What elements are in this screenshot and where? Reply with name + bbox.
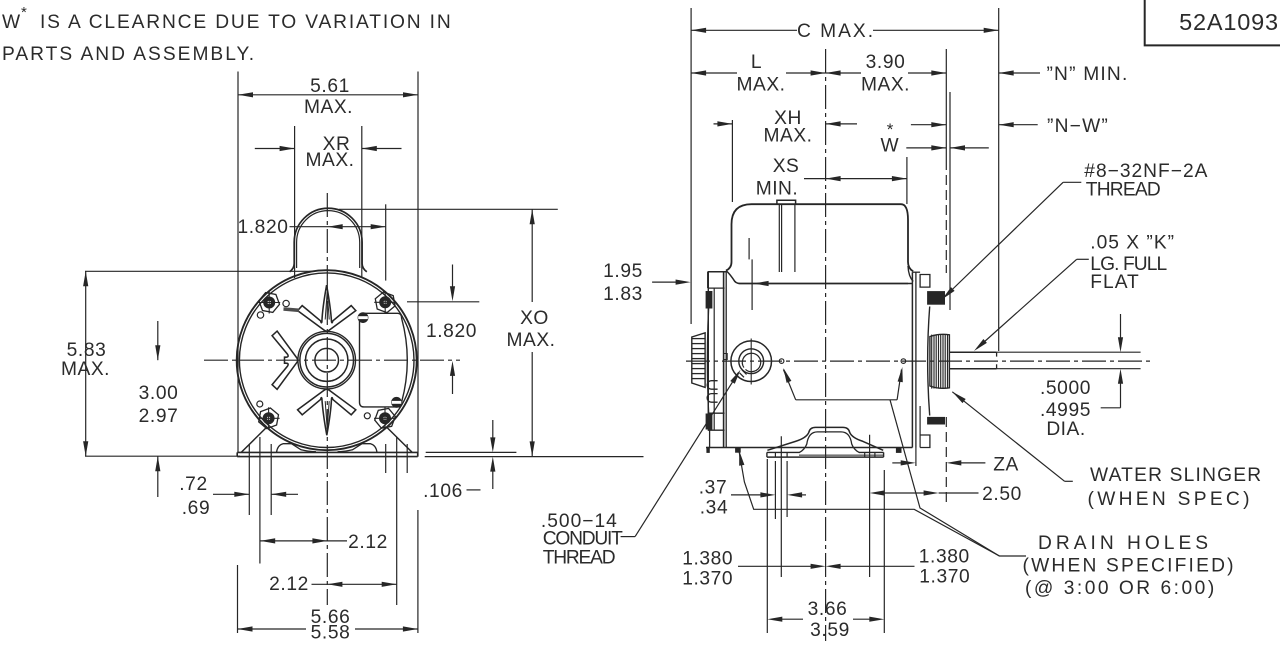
svg-text:1.380: 1.380 <box>682 549 733 570</box>
svg-text:3.90: 3.90 <box>866 52 906 73</box>
mid foot pad <box>735 448 741 453</box>
small hole near UL boss <box>283 300 289 306</box>
left foot inner profile <box>277 444 317 453</box>
base clamp bar <box>767 451 800 453</box>
svg-text:5.58: 5.58 <box>311 623 351 644</box>
dim 1.820 right (bolt line to centerline) <box>407 301 479 303</box>
cap right flare <box>908 266 913 282</box>
vertical ref line at shaft shoulder <box>945 49 947 160</box>
dim XS MIN <box>906 157 908 204</box>
svg-text:.4995: .4995 <box>1040 400 1091 421</box>
svg-text:MIN.: MIN. <box>756 179 799 200</box>
svg-text:FLAT: FLAT <box>1090 272 1140 293</box>
left bearing hub ribbed <box>692 333 705 388</box>
dim 2.12 upper <box>260 540 347 542</box>
svg-text:THREAD: THREAD <box>1086 180 1160 201</box>
svg-text:1.95: 1.95 <box>603 261 643 282</box>
svg-text:2.97: 2.97 <box>139 406 179 427</box>
centerline horizontal right view <box>686 360 1151 362</box>
right foot outer slant <box>387 427 413 452</box>
svg-text:PARTS AND ASSEMBLY.: PARTS AND ASSEMBLY. <box>2 44 256 65</box>
vertical centerline left view <box>326 193 328 605</box>
base reference lines right extension <box>426 451 517 453</box>
svg-text:W: W <box>2 12 21 33</box>
dim 5.61 MAX extension lines <box>237 72 239 453</box>
svg-text:3.59: 3.59 <box>810 620 850 641</box>
centerline vertical right view <box>825 49 827 641</box>
svg-text:3.00: 3.00 <box>139 383 179 404</box>
vertical ref line shaft face <box>949 92 951 310</box>
svg-text:C MAX.: C MAX. <box>797 21 875 42</box>
svg-text:2.12: 2.12 <box>348 532 388 553</box>
dim 5.66 / 5.58 <box>237 565 239 633</box>
foot slot lines left <box>248 444 250 515</box>
svg-text:3.66: 3.66 <box>808 599 848 620</box>
drain hole right dot <box>901 359 906 364</box>
svg-text:5.83: 5.83 <box>67 340 107 361</box>
motor body circle inner ring <box>239 273 414 448</box>
drain leader right dot <box>897 370 901 400</box>
dim 3.00 / 2.97 <box>157 321 159 360</box>
svg-text:MAX.: MAX. <box>304 97 353 118</box>
svg-text:DIA.: DIA. <box>1046 419 1085 440</box>
drain leader to text <box>890 400 1026 556</box>
svg-text:MAX.: MAX. <box>861 75 910 96</box>
svg-text:MAX.: MAX. <box>306 150 355 171</box>
svg-text:.5000: .5000 <box>1040 378 1091 399</box>
right clip top dark <box>927 291 945 305</box>
vent group bottom with needle <box>298 389 356 435</box>
name plate screw bottom <box>392 398 402 408</box>
left plate foot pad <box>706 447 709 453</box>
conduit boss notch <box>742 370 747 375</box>
dim 3.66 / 3.59 <box>766 459 768 633</box>
center shaft circles <box>315 348 339 372</box>
dim 3.90 MAX <box>826 72 861 74</box>
bolt lower-right with boss <box>380 413 391 424</box>
right clip bottom dark <box>927 417 945 425</box>
dim XH MAX <box>731 120 733 202</box>
foot slot center line right <box>396 437 398 605</box>
dim XR MAX extension lines <box>294 126 296 278</box>
clamp slot ticks <box>774 452 776 457</box>
svg-text:1.380: 1.380 <box>919 547 970 568</box>
svg-text:DRAIN HOLES: DRAIN HOLES <box>1038 533 1212 554</box>
ZA extension from body edge <box>915 448 917 467</box>
conduit boss centerline tick <box>750 339 752 385</box>
needle inner line top <box>325 292 329 320</box>
svg-text:(WHEN SPECIFIED): (WHEN SPECIFIED) <box>1023 556 1236 577</box>
bottom base reference line left <box>85 455 240 457</box>
body top arrow <box>754 281 769 286</box>
name plate <box>360 313 408 407</box>
svg-text:.37: .37 <box>699 478 727 499</box>
needle inner line bottom <box>325 401 329 429</box>
conduit boss on body <box>731 341 772 382</box>
left clip bottom dark <box>706 414 713 430</box>
cap top tab <box>777 200 796 204</box>
conduit hump on top of motor <box>290 208 367 272</box>
svg-text:52A1093: 52A1093 <box>1179 9 1279 35</box>
svg-text:IS A CLEARNCE DUE TO VARI: IS A CLEARNCE DUE TO VARIATION IN <box>40 12 453 33</box>
dim 1.380/1.370 left <box>780 436 782 577</box>
conduit cap side view <box>726 204 913 271</box>
right foot pad <box>896 448 902 453</box>
foot slot center line left <box>259 437 261 564</box>
svg-text:XO: XO <box>520 308 549 329</box>
left end plate <box>708 271 727 273</box>
vent group top with needle <box>298 285 356 331</box>
right foot inner profile <box>338 444 378 453</box>
clamp hump outer <box>767 427 883 450</box>
title block 52A1093 <box>1145 0 1280 45</box>
drain leader from foot pad <box>739 452 999 556</box>
svg-text:1.820: 1.820 <box>426 321 477 342</box>
top tangent reference line <box>85 270 314 272</box>
bolt lower-left with boss <box>263 413 274 424</box>
vent ring circle <box>298 331 356 389</box>
mounting base left view <box>237 451 418 453</box>
right end bell curve <box>928 307 930 416</box>
dim C MAX <box>690 8 692 324</box>
svg-text:ZA: ZA <box>993 455 1019 476</box>
horizontal centerline left view <box>204 359 460 361</box>
small hole near LL boss <box>257 401 263 407</box>
svg-text:.106: .106 <box>423 481 463 502</box>
svg-text:W: W <box>880 136 899 157</box>
left plate lower lines <box>709 430 711 447</box>
motor body side outline <box>726 271 908 284</box>
conduit hump inner wall <box>297 211 360 268</box>
svg-text:MAX.: MAX. <box>764 126 813 147</box>
svg-text:CONDUIT: CONDUIT <box>543 529 623 550</box>
drain hole left dot <box>779 359 784 364</box>
vent group left <box>272 331 298 389</box>
right end step rect bottom <box>920 435 930 448</box>
dim L MAX <box>691 72 737 74</box>
vent slot bar near UL boss <box>284 309 300 310</box>
left clip top dark <box>706 291 713 309</box>
svg-text:(@ 3:00 OR 6:00): (@ 3:00 OR 6:00) <box>1025 578 1217 599</box>
drain leader left dot <box>783 370 795 400</box>
bolt upper-right with boss <box>380 297 391 308</box>
bolt upper-left with boss <box>264 297 275 308</box>
svg-text:XS: XS <box>773 156 800 177</box>
svg-text:1.83: 1.83 <box>603 284 643 305</box>
water slinger ribbed disc <box>930 334 950 388</box>
dim XR MAX <box>255 148 295 150</box>
svg-text:(WHEN SPEC): (WHEN SPEC) <box>1088 489 1253 510</box>
dim 1.820 top <box>385 204 387 280</box>
left end bell curve <box>707 292 709 431</box>
svg-text:MAX.: MAX. <box>737 75 786 96</box>
svg-text:MAX.: MAX. <box>507 330 556 351</box>
svg-text:.69: .69 <box>182 498 210 519</box>
svg-text:2.50: 2.50 <box>982 484 1022 505</box>
right body edge lines <box>911 272 913 447</box>
motor body circle outer <box>237 270 417 450</box>
shaft <box>949 351 996 353</box>
name plate screw top <box>358 313 368 323</box>
dim 5.61 MAX <box>238 94 418 96</box>
right end step rect top <box>920 275 930 288</box>
svg-text:”N” MIN.: ”N” MIN. <box>1046 64 1128 85</box>
svg-text:.72: .72 <box>179 474 207 495</box>
dim .106 <box>492 420 494 440</box>
svg-text:”N−W”: ”N−W” <box>1047 116 1109 137</box>
svg-text:THREAD: THREAD <box>543 548 615 569</box>
dim 5.83 MAX <box>85 271 87 456</box>
svg-text:1.370: 1.370 <box>919 567 970 588</box>
left clip top rect <box>708 287 725 289</box>
hump top reference line <box>339 208 558 210</box>
base mounting line <box>799 454 883 456</box>
svg-text:1.820: 1.820 <box>237 217 288 238</box>
svg-text:2.12: 2.12 <box>269 574 309 595</box>
svg-text:L: L <box>751 52 762 73</box>
svg-text:.05 X ”K”: .05 X ”K” <box>1090 233 1175 254</box>
svg-text:WATER SLINGER: WATER SLINGER <box>1090 465 1262 486</box>
svg-text:MAX.: MAX. <box>61 359 110 380</box>
cap seam lines <box>778 204 780 272</box>
small hole near LR boss <box>364 413 370 419</box>
clamp hump inner <box>799 432 860 453</box>
foot slot lines right <box>385 444 387 473</box>
svg-text:*: * <box>21 4 27 21</box>
left clip bottom outline <box>708 412 725 414</box>
svg-text:.34: .34 <box>700 498 728 519</box>
oil tubes <box>707 381 717 390</box>
dim XO MAX <box>531 209 533 302</box>
svg-text:5.61: 5.61 <box>310 76 350 97</box>
body edge notch tab <box>724 354 728 360</box>
shaft dia extension lines <box>997 351 1141 353</box>
dim "N-W" <box>911 124 946 126</box>
dim 2.50 <box>869 435 871 577</box>
left foot outer slant <box>241 427 267 452</box>
svg-text:1.370: 1.370 <box>682 569 733 590</box>
drain leader crossbar <box>796 399 897 401</box>
dim ZA <box>892 462 903 464</box>
dim "N" MIN <box>999 72 1040 74</box>
